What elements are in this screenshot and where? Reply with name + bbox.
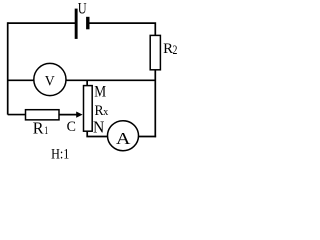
resistor R1 bbox=[26, 110, 60, 120]
voltmeter V circle bbox=[34, 63, 66, 95]
svg-text:1: 1 bbox=[44, 123, 48, 137]
svg-text:C: C bbox=[67, 119, 76, 135]
wire: R1 left lead bbox=[8, 114, 26, 116]
svg-text:A: A bbox=[116, 129, 131, 148]
wire: right vertical below R2 bbox=[154, 70, 156, 138]
wire: rheostat top stub bbox=[86, 80, 88, 85]
svg-text:U: U bbox=[78, 1, 87, 18]
svg-text:N: N bbox=[93, 118, 104, 137]
wire: R1 right lead to wiper bbox=[59, 114, 77, 116]
wire: top right segment with corner down to R2 bbox=[89, 23, 155, 35]
wire: top left segment to battery bbox=[8, 22, 76, 24]
wire: voltmeter left lead bbox=[8, 79, 34, 81]
rheostat wiper arrowhead bbox=[76, 112, 82, 118]
svg-text:H:1: H:1 bbox=[51, 146, 69, 162]
svg-text:M: M bbox=[94, 83, 106, 100]
wire: left vertical bbox=[7, 22, 9, 114]
rheostat Rx body bbox=[84, 86, 93, 132]
wire: rheostat bottom stub to ammeter bbox=[87, 131, 107, 136]
svg-text:2: 2 bbox=[173, 43, 178, 57]
resistor R2 bbox=[150, 35, 160, 69]
wire: voltmeter right lead to right node bbox=[66, 79, 156, 81]
svg-text:V: V bbox=[45, 74, 55, 90]
battery U short plate bbox=[86, 17, 89, 30]
svg-text:x: x bbox=[103, 106, 108, 118]
ammeter A circle bbox=[108, 121, 139, 151]
battery U long plate bbox=[75, 9, 78, 39]
svg-text:R: R bbox=[33, 119, 44, 138]
wire: ammeter right lead to corner bbox=[138, 136, 156, 138]
